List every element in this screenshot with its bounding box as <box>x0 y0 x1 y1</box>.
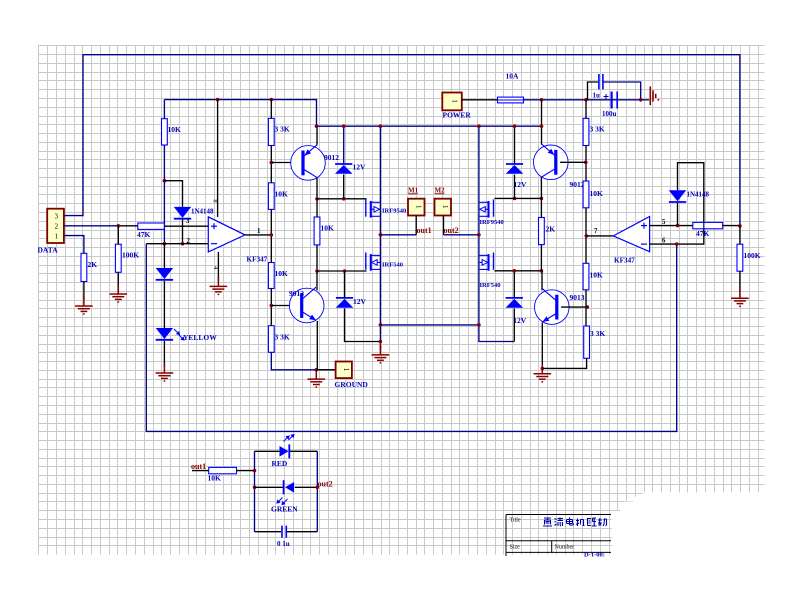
wire out1 to M1 <box>380 234 416 236</box>
svg-text:out2: out2 <box>318 480 333 489</box>
svg-text:3: 3 <box>55 213 59 220</box>
wire DATA pin1 to 2K <box>64 236 84 254</box>
wire +12V rail upper left <box>164 100 316 127</box>
junction bridge rail / zener return <box>379 340 383 344</box>
resistor 10K (right mid upper) <box>583 181 589 208</box>
junction right bridge rail / +12V rail <box>477 124 481 128</box>
ground on bottom-left rail <box>308 370 326 388</box>
svg-text:10K: 10K <box>168 125 182 134</box>
wire 9012 collector down to gate rail <box>540 177 542 198</box>
wire 100K to ground <box>117 272 119 288</box>
svg-text:5: 5 <box>662 219 666 226</box>
wire 1u to top node <box>603 82 641 100</box>
LED D-GREEN (points left) <box>285 482 294 493</box>
diode 1N4148 clamp (right) <box>669 190 686 201</box>
wire cross link between bridge grounds <box>380 324 479 326</box>
wire right bias column from top wire <box>585 100 587 119</box>
wire 9012 collector down to gate rail <box>316 178 318 199</box>
junction zener tap on bottom gate rail left <box>343 269 347 273</box>
title text DC motor drive (Chinese) <box>543 518 607 527</box>
svg-text:12V: 12V <box>353 297 367 306</box>
svg-text:1: 1 <box>441 205 449 209</box>
junction +12V rail end at emitter column <box>540 124 544 128</box>
resistor 10K (feedback upper) <box>162 119 168 145</box>
wire fuse to +12V top node <box>524 99 650 101</box>
ground below YELLOW LED <box>156 364 174 382</box>
wire 9013 emitter down to ground rail <box>316 321 318 370</box>
wire 10K to bottom gate rail left <box>316 245 318 271</box>
transistor Q4 9013 (right NPN) <box>535 290 570 325</box>
svg-text:100K: 100K <box>744 251 761 260</box>
svg-text:1u: 1u <box>593 92 601 100</box>
junction collector 9012 / top gate rail left <box>315 197 319 201</box>
svg-text:3 3K: 3 3K <box>275 125 290 134</box>
title block frame <box>506 515 611 557</box>
resistor 100K (input divider) <box>115 244 121 272</box>
svg-text:GROUND: GROUND <box>335 380 369 389</box>
resistor 10K (left mid upper) <box>268 183 274 210</box>
svg-text:3 3K: 3 3K <box>590 329 605 338</box>
ground below 2K <box>75 297 93 315</box>
junction out2 node on bridge rail <box>477 233 481 237</box>
junction node X column / inverting line <box>163 242 167 246</box>
resistor 2K (input pulldown) <box>81 253 87 281</box>
wire 9012 emitter up to +12V rail <box>316 126 318 144</box>
wire pin6 feedback crossing 47K body <box>703 222 705 229</box>
junction outer loop / 100K right <box>738 224 742 228</box>
LED D-RED (points right) <box>280 446 289 457</box>
wire 2K to ground <box>83 282 85 301</box>
svg-text:2: 2 <box>187 238 191 245</box>
diode 1N4148 clamp (left) <box>174 207 191 218</box>
resistor 3.3K (right upper bias) <box>583 118 589 145</box>
wire top gate rail left <box>317 198 367 200</box>
svg-text:9013: 9013 <box>289 289 304 298</box>
svg-text:GREEN: GREEN <box>271 505 298 514</box>
svg-text:10K: 10K <box>590 271 604 280</box>
transistor IRF9540 (left high side) <box>365 199 367 216</box>
svg-text:1N4148: 1N4148 <box>687 191 710 199</box>
svg-text:10K: 10K <box>590 189 604 198</box>
svg-text:2K: 2K <box>546 225 556 234</box>
junction zener / +12V rail <box>342 124 346 128</box>
wire GREEN LED to out2 node <box>295 486 318 488</box>
wire zener down and over to bridge rail <box>345 308 381 341</box>
wire 100K tap down <box>117 226 119 244</box>
wire 2K to bottom gate rail <box>540 245 542 271</box>
LED arrows for YELLOW <box>174 329 180 335</box>
ground below right driver <box>541 368 543 373</box>
wire out2 to right bridge <box>444 234 479 236</box>
wire RED LED branch <box>255 450 280 452</box>
junction left vertical / out1 wire <box>253 469 257 473</box>
LED arrows for GREEN <box>277 498 283 504</box>
svg-text:1: 1 <box>450 99 458 103</box>
zener D 12V (right upper) <box>514 126 516 164</box>
svg-text:Size: Size <box>510 545 521 551</box>
svg-text:1: 1 <box>415 205 423 209</box>
wire bottom to capacitor <box>255 531 282 533</box>
LED D-YELLOW <box>156 328 173 339</box>
svg-text:9012: 9012 <box>570 180 585 189</box>
wire 1u bypass branch <box>588 82 598 100</box>
wire bottom gate rail to 9013 collector <box>541 271 543 291</box>
wire 3.3K to 9012 base node <box>585 146 587 182</box>
wire right top gate rail <box>494 197 541 199</box>
wire 100K to ground <box>739 271 741 292</box>
svg-text:10K: 10K <box>208 474 222 483</box>
junction bridge rail / cross link <box>379 323 383 327</box>
junction base of right 9013 <box>586 305 590 309</box>
wire base of 9012 left <box>271 162 301 164</box>
svg-text:D-1-00:: D-1-00: <box>584 552 605 559</box>
wire node X jog to clamp diode <box>164 181 182 207</box>
svg-text:POWER: POWER <box>443 111 472 120</box>
transistor Q2 9013 (left NPN) <box>289 288 324 323</box>
wire base of right 9013 <box>561 306 587 308</box>
svg-text:out1: out1 <box>191 462 206 471</box>
resistor 10K (left mid lower) <box>268 263 274 289</box>
svg-text:Title: Title <box>510 518 521 524</box>
wire op-amp2 output to bias column <box>586 235 613 237</box>
resistor 10K (gate divider left) <box>316 199 318 217</box>
resistor 2K (right gate divider) <box>540 198 542 217</box>
junction base of right 9012 <box>584 161 588 165</box>
wire right bottom gate rail <box>494 270 541 272</box>
wire bottom gate rail to 9013 collector <box>316 271 318 290</box>
svg-text:1: 1 <box>342 368 350 372</box>
wire non-inverting pin5 of op-amp2 <box>650 225 696 227</box>
pin 8 V+ stem of op-amp <box>217 100 219 217</box>
wire right bridge rail vertical <box>479 126 514 341</box>
svg-text:IRF9540: IRF9540 <box>480 219 504 226</box>
wire RED LED to right vertical <box>290 450 317 452</box>
resistor 10K (LED series) <box>209 467 237 473</box>
junction top wire / driver column right <box>540 98 544 102</box>
wire between diodes <box>163 281 165 328</box>
wire zener down and over to right bridge rail <box>513 308 515 341</box>
svg-text:2: 2 <box>55 223 59 230</box>
svg-text:6: 6 <box>662 238 666 245</box>
zener D 12V (right lower) <box>513 271 515 298</box>
junction bridge rail / +12V rail <box>379 124 383 128</box>
svg-text:47K: 47K <box>137 230 151 239</box>
svg-text:3 3K: 3 3K <box>590 125 605 134</box>
svg-text:Number: Number <box>555 545 575 551</box>
ground below right 100K <box>731 289 749 307</box>
svg-text:10A: 10A <box>506 72 520 81</box>
wire right driver column emitter to top wire <box>541 100 543 145</box>
junction top wire / 1u return <box>639 98 643 102</box>
wire zener to gate rail <box>343 175 345 199</box>
wire node X down to 47K junction and inverting line <box>163 181 165 244</box>
wire 3.3K to 9012 base node <box>270 146 272 183</box>
junction 10K / bottom gate rail left <box>315 269 319 273</box>
wire bottom-left rail to GROUND connector <box>316 369 335 371</box>
wire 10K to op-amp2 output node <box>585 208 587 263</box>
zener D 12V (left lower) <box>344 271 346 298</box>
wire feedback bottom loop linking both op-amps <box>146 244 676 432</box>
svg-text:KF347: KF347 <box>247 256 268 264</box>
svg-text:1: 1 <box>55 233 58 240</box>
transistor IRF540 (right low side) <box>493 253 495 270</box>
junction bottom-left ground rail <box>315 368 319 372</box>
wire M2 pin down to out2 net <box>443 216 445 235</box>
power ground right of 100u <box>650 86 658 105</box>
wire 47K to outer loop node <box>723 225 740 227</box>
connector J3 GROUND <box>336 362 352 379</box>
resistor 47K (input series) <box>138 223 165 229</box>
wire inverting pin6 of op-amp2 <box>650 163 704 244</box>
wire LED bridge right vertical <box>316 451 318 531</box>
connector M1 <box>408 199 425 216</box>
wire clamp diode to inverting input line <box>182 220 184 244</box>
svg-text:7: 7 <box>594 228 598 235</box>
junction on pin2 wire at 100K tap <box>117 224 121 228</box>
resistor 10K (right mid lower) <box>583 263 589 290</box>
wire inverting input line (pin2) <box>146 243 208 245</box>
svg-text:12V: 12V <box>353 163 367 172</box>
wire 10K to node X <box>163 145 165 181</box>
transistor IRF9540 (right high side) <box>493 199 495 216</box>
svg-text:10K: 10K <box>275 190 289 199</box>
junction zener / +12V rail right <box>513 124 517 128</box>
svg-text:IRF540: IRF540 <box>382 262 403 269</box>
transistor Q1 9012 (left PNP) <box>291 146 326 181</box>
capacitor 1u <box>598 74 600 90</box>
wire 10K to op-amp output node <box>270 209 272 262</box>
wire clamp diode to pin5 node <box>677 203 679 226</box>
junction out1 node on bridge rail <box>379 233 383 237</box>
ground below op-amp pin 4 <box>210 277 228 295</box>
svg-text:8: 8 <box>212 199 219 202</box>
wire inverting node down to indicator diode <box>163 244 165 268</box>
svg-text:10K: 10K <box>275 269 289 278</box>
svg-text:0 1u: 0 1u <box>277 540 290 548</box>
resistor 100K (right divider) <box>737 244 743 271</box>
svg-text:3: 3 <box>186 218 190 225</box>
junction left vertical / green branch <box>253 486 257 490</box>
wire +12V rail middle section <box>317 125 542 127</box>
wire capacitor to right vertical <box>286 531 317 533</box>
svg-text:12V: 12V <box>514 180 528 189</box>
transistor IRF540 (left low side) <box>365 253 367 270</box>
svg-text:DATA: DATA <box>38 246 59 255</box>
wire 9013 emitter down to ground <box>541 323 543 369</box>
svg-text:out1: out1 <box>417 226 432 235</box>
svg-text:1N4148: 1N4148 <box>191 208 214 216</box>
svg-text:IRF9540: IRF9540 <box>382 208 406 215</box>
ground below 100K <box>110 285 128 303</box>
junction node X <box>163 179 167 183</box>
wire POWER pin to fuse <box>462 99 498 101</box>
junction right emitter / 3.3K return <box>541 367 545 371</box>
wire 10K to 9013 base node <box>270 289 272 326</box>
wire rail to 3.3K <box>270 100 272 119</box>
wire M1 pin down to out1 net <box>415 216 417 235</box>
svg-text:IRF540: IRF540 <box>480 282 501 289</box>
junction base of 9013 left <box>270 304 274 308</box>
svg-text:100u: 100u <box>602 110 617 118</box>
op-amp U1A KF347 (left) <box>208 217 245 252</box>
svg-text:M1: M1 <box>408 187 419 195</box>
connector M2 <box>435 199 452 216</box>
wire zener to right top gate rail <box>514 175 516 199</box>
zener D 12V (left upper) <box>343 126 345 164</box>
wire base of 9013 left <box>271 305 300 307</box>
capacitor 100u polarized <box>610 92 612 109</box>
wire bottom gate rail left <box>317 270 367 272</box>
svg-text:100K: 100K <box>122 251 139 260</box>
LED arrows for RED <box>284 436 290 442</box>
junction pin5 / clamp diode right <box>676 224 680 228</box>
junction zener tap on top gate rail left <box>342 197 346 201</box>
junction top wire / right bias column <box>584 98 588 102</box>
junction clamp diode / inverting line <box>181 242 185 246</box>
ground below left bridge <box>379 342 381 350</box>
resistor 47K (right series) <box>693 222 723 228</box>
svg-text:3 3K: 3 3K <box>275 333 290 342</box>
wire non-inverting input (pin3) <box>164 225 208 227</box>
svg-text:2K: 2K <box>88 260 98 269</box>
capacitor 0.1u <box>281 526 283 538</box>
svg-text:47K: 47K <box>696 229 710 238</box>
svg-text:9012: 9012 <box>324 153 339 162</box>
op-amp U1B KF347 (right, mirrored) <box>613 217 649 252</box>
wire outer loop node to 100K <box>739 226 741 244</box>
connector J2 POWER <box>442 93 462 111</box>
svg-text:YELLOW: YELLOW <box>183 333 217 342</box>
wire YELLOW LED to ground <box>163 341 165 367</box>
junction pin6 / bottom loop <box>675 242 679 246</box>
junction base of 9012 left <box>270 161 274 165</box>
transistor Q3 9012 (right PNP) <box>534 145 569 180</box>
wire 3.3K return rail right <box>542 358 586 368</box>
svg-text:RED: RED <box>272 459 288 468</box>
wire 10K to 9013 base node <box>585 290 587 326</box>
wire LED bridge left vertical <box>254 451 256 531</box>
junction op-amp1 output node <box>270 233 274 237</box>
wire GREEN LED branch <box>255 486 284 488</box>
junction zener / right bottom gate rail <box>513 269 517 273</box>
svg-text:KF347: KF347 <box>614 257 635 265</box>
plus mark of 100u <box>604 94 609 99</box>
junction zener / right top gate rail <box>513 197 517 201</box>
junction rail / op-amp V+ stem <box>216 98 220 102</box>
pin 4 ground stem of op-amp <box>217 252 219 281</box>
wire base of right 9012 <box>560 161 586 163</box>
wire out1 stub to 10K <box>192 470 209 472</box>
junction emitter / +12V rail <box>315 124 319 128</box>
svg-text:out2: out2 <box>444 226 459 235</box>
wire op-amp1 output <box>245 234 271 236</box>
junction rail / 3.3K column <box>270 98 274 102</box>
resistor 3.3K (left upper bias) <box>268 118 274 145</box>
svg-text:12V: 12V <box>513 316 527 325</box>
junction right bottom gate rail / driver column <box>540 269 544 273</box>
fuse 10A <box>498 97 524 103</box>
diode series (indicator branch) <box>156 268 173 279</box>
wire rail corner down to 10K feedback <box>163 100 165 119</box>
svg-text:M2: M2 <box>435 187 446 195</box>
wire 10K to LED bridge left node <box>237 470 255 472</box>
wire left bridge rail vertical <box>379 126 381 349</box>
resistor 3.3K (right lower bias) <box>584 326 590 358</box>
junction right bridge rail / cross link <box>477 323 481 327</box>
connector J1 DATA <box>47 209 64 243</box>
junction op-amp2 output node <box>585 234 589 238</box>
resistor 3.3K (left lower bias) <box>268 326 274 353</box>
wire DATA pin2 to 47K <box>64 225 118 227</box>
junction right vertical / out2 <box>316 486 320 490</box>
junction right top gate rail / driver column <box>540 197 544 201</box>
svg-text:10K: 10K <box>321 224 335 233</box>
svg-text:1: 1 <box>257 228 261 235</box>
wire outer top loop from DATA pin3 to right feedback node <box>64 55 740 226</box>
svg-text:9013: 9013 <box>570 293 585 302</box>
wire 3.3K down to bottom-left ground rail <box>271 352 335 370</box>
